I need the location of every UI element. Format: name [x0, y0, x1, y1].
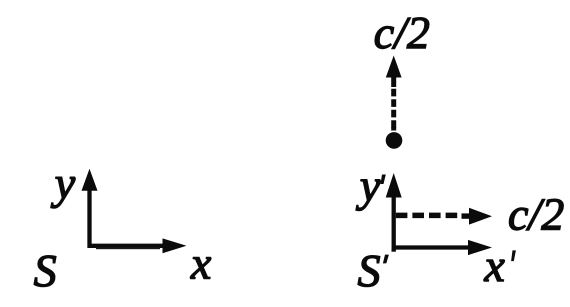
svg-text:c/2: c/2 — [374, 7, 430, 58]
frame S' y'-axis arrowhead — [386, 173, 402, 198]
horizontal dashed velocity arrow c/2 : head stub — [462, 213, 471, 218]
label S' : letter S — [358, 245, 381, 296]
svg-text:S: S — [34, 245, 57, 296]
horizontal dashed velocity arrow c/2 : arrowhead — [469, 208, 492, 225]
frame S y-axis arrowhead — [82, 169, 98, 191]
label x (frame S) — [190, 238, 212, 289]
label y (frame S) — [51, 158, 76, 209]
light pulse dot — [386, 132, 403, 149]
frame S axes (y-axis and x-axis corner) — [90, 189, 166, 246]
vertical dashed velocity arrow c/2 : arrowhead — [386, 56, 402, 78]
svg-text:S: S — [358, 245, 381, 296]
horizontal dashed velocity arrow c/2 : shaft dashes — [396, 213, 461, 219]
label c/2 (right) — [508, 189, 564, 240]
label c/2 (top) — [374, 7, 430, 58]
svg-text:y: y — [356, 160, 381, 211]
label S — [34, 245, 57, 296]
svg-text:c/2: c/2 — [508, 189, 564, 240]
vertical dashed velocity arrow c/2 : head stub — [391, 77, 396, 88]
label y' (frame S') : letter y — [356, 160, 381, 211]
label x' (frame S') : letter x — [483, 240, 505, 291]
svg-text:y: y — [51, 158, 76, 209]
frame S' origin stub below x'-axis — [392, 249, 396, 252]
label S' : prime mark — [383, 255, 389, 264]
frame S x-axis arrowhead — [163, 238, 187, 253]
label y' (frame S') : prime mark — [381, 175, 386, 185]
svg-text:x: x — [190, 238, 212, 289]
svg-text:x: x — [483, 240, 505, 291]
frame S' axes (y'-axis and x'-axis corner) — [394, 195, 470, 248]
vertical dashed velocity arrow c/2 : shaft dashes — [391, 89, 396, 131]
frame S x-axis scan roughness — [96, 247, 160, 249]
label x' (frame S') : prime mark — [511, 250, 516, 261]
frame S' x'-axis arrowhead — [468, 240, 492, 255]
